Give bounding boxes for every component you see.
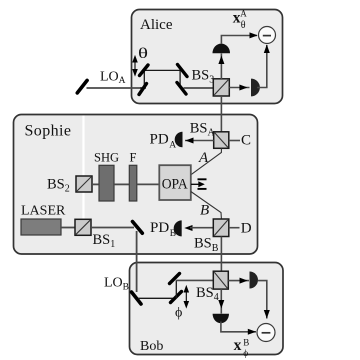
wire right detector to subtractor xyxy=(257,45,267,88)
svg-text:A: A xyxy=(169,140,176,150)
beamsplitter BSA xyxy=(214,132,229,149)
laser box xyxy=(21,219,61,235)
mirror LO_A input xyxy=(77,80,87,93)
wire BS3 up to detector xyxy=(220,54,222,80)
arrowhead right into Bob right detector xyxy=(240,278,248,284)
Alice enclosure box xyxy=(132,10,283,104)
mirror trombone bottom-left xyxy=(139,84,147,95)
wire BSB left to PDB xyxy=(190,227,213,229)
beam B from OPA to BSB xyxy=(191,192,222,219)
arrowhead left into PDB xyxy=(184,225,192,231)
arrowhead down into dome detector xyxy=(218,300,224,309)
svg-text:PD: PD xyxy=(150,220,169,236)
wire trombone top beam xyxy=(144,69,180,71)
wire BSA left to PDA xyxy=(185,140,214,142)
mirror Bob bottom-middle xyxy=(171,292,182,303)
arrow theta double-headed xyxy=(133,57,137,76)
wire F to OPA xyxy=(137,183,160,185)
svg-text:B: B xyxy=(243,337,249,347)
minus sign Alice xyxy=(263,35,271,37)
wire BS1 to fold mirror xyxy=(91,227,134,229)
wire trombone lower-left stub xyxy=(140,87,144,89)
wire white vertical beam BS1-BS2 xyxy=(82,116,84,220)
wire LO_B beam right xyxy=(138,297,177,299)
beamsplitter BS2 xyxy=(76,176,92,192)
arrowhead up into subtractor bottom xyxy=(264,45,270,54)
SHG crystal box xyxy=(99,165,114,201)
wire LO_A beam into Alice xyxy=(87,87,147,89)
arrowhead right into subtractor left xyxy=(248,329,256,335)
mirror trombone top-left xyxy=(140,65,149,76)
detector Bob right (D-shape) xyxy=(250,272,259,289)
wire Bob top beam to BS4 xyxy=(176,279,213,281)
wire BS4 down to dome detector xyxy=(220,289,222,313)
detector Bob bottom dome (down-facing) xyxy=(213,314,229,323)
svg-text:x: x xyxy=(234,337,242,354)
svg-text:OPA: OPA xyxy=(162,176,188,192)
wire trombone right vertical xyxy=(179,70,181,88)
wire BSB down to BS4 xyxy=(220,237,222,272)
subtractor circle Bob xyxy=(257,324,275,342)
svg-text:θ: θ xyxy=(241,20,246,31)
detector PDB xyxy=(174,220,182,236)
svg-text:PD: PD xyxy=(150,132,169,148)
Bob enclosure box xyxy=(130,263,284,355)
svg-text:ϕ: ϕ xyxy=(175,305,182,320)
mirror Bob top-middle xyxy=(170,274,180,284)
wire fold mirror down to LO_B mirror xyxy=(136,231,138,292)
wire BS2 to SHG xyxy=(92,183,99,185)
svg-text:B: B xyxy=(200,202,209,218)
arrowhead left into PDA xyxy=(185,138,193,144)
svg-text:F: F xyxy=(130,150,137,164)
mirror trombone top-right xyxy=(178,65,188,77)
arrowhead up into top detector xyxy=(218,56,224,65)
beamsplitter BS3 xyxy=(213,79,229,96)
svg-text:Bob: Bob xyxy=(140,339,163,354)
wire laser to BS1 xyxy=(61,227,75,229)
beamsplitter BS4 xyxy=(213,271,228,289)
minus sign Bob xyxy=(262,332,271,334)
svg-text:Alice: Alice xyxy=(140,17,173,33)
mirror LO_B xyxy=(132,292,142,304)
Sophie enclosure box xyxy=(14,115,258,255)
beamsplitter BS1 xyxy=(75,219,91,235)
wire dome up and right to subtractor xyxy=(221,36,257,44)
mirror Sophie fold (to Bob) xyxy=(133,222,143,234)
svg-text:LASER: LASER xyxy=(21,204,66,219)
arrowhead down into subtractor top xyxy=(264,310,270,319)
wire Bob vertical between mirrors xyxy=(175,280,177,298)
detector Alice right (D-shape) xyxy=(251,79,260,97)
svg-text:A: A xyxy=(240,9,247,19)
wire dome down and right to subtractor xyxy=(221,322,256,332)
wire BS3 right to detector xyxy=(229,87,249,89)
wire trombone output to BS3 xyxy=(184,87,214,89)
svg-text:Sophie: Sophie xyxy=(25,123,72,140)
wire trombone left vertical xyxy=(143,70,145,88)
svg-text:A: A xyxy=(198,150,209,166)
beam A from OPA to BSA xyxy=(191,148,222,175)
arrow phi double-headed xyxy=(184,287,188,308)
detector Alice top dome xyxy=(213,44,231,54)
wire Bob right detector to subtractor xyxy=(258,281,267,319)
wire BSB right stub D xyxy=(229,227,240,229)
svg-text:θ: θ xyxy=(138,46,148,62)
svg-text:SHG: SHG xyxy=(94,151,119,165)
svg-text:C: C xyxy=(241,132,251,148)
pump dump arrow right of OPA xyxy=(191,179,207,189)
svg-text:D: D xyxy=(241,220,252,236)
wire BS4 right to detector xyxy=(228,280,249,282)
beamsplitter BSB xyxy=(213,219,229,237)
svg-text:ϕ: ϕ xyxy=(243,349,248,359)
mirror trombone bottom-right xyxy=(177,83,186,95)
OPA box xyxy=(159,165,191,200)
arrowhead right into subtractor xyxy=(250,32,258,38)
arrowhead right into right detector xyxy=(239,85,247,91)
detector PDA xyxy=(175,132,183,148)
filter F bar xyxy=(129,165,137,201)
subtractor circle Alice xyxy=(259,27,276,44)
wire SHG to F xyxy=(114,183,129,185)
wire BSA right stub C xyxy=(229,140,240,142)
wire BS3 down to BSA xyxy=(220,96,222,132)
